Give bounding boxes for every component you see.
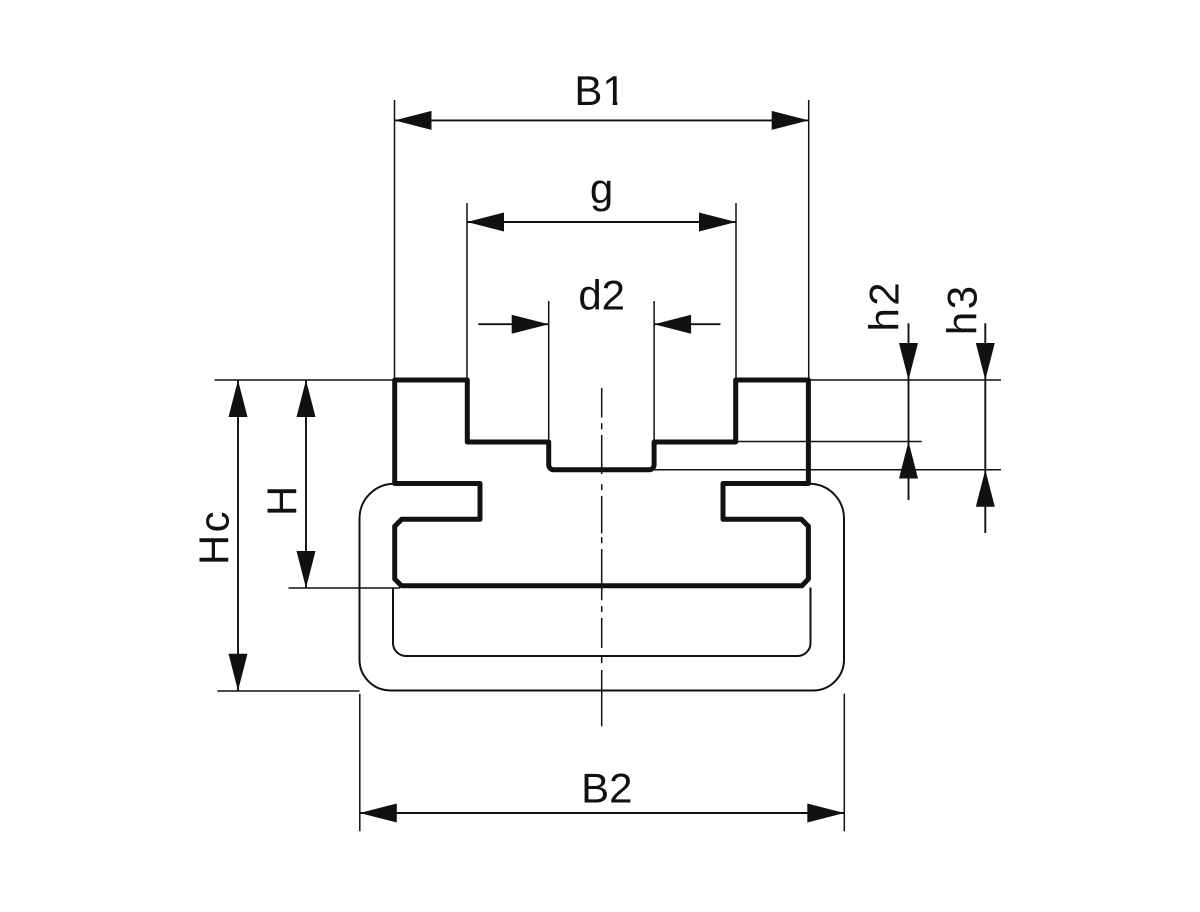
h3 upper arrow	[976, 343, 995, 380]
Hc top arrow	[229, 380, 248, 417]
B2 dimension line	[360, 812, 845, 814]
B1 left extension	[394, 100, 396, 380]
g right arrow	[699, 213, 736, 232]
d2 right arrow	[654, 315, 691, 334]
H dimension line	[305, 380, 307, 588]
Hc dimension line	[237, 380, 239, 691]
Hc bottom arrow	[229, 654, 248, 691]
extension lines	[215, 100, 1001, 831]
C-channel inner thin outline	[393, 588, 811, 657]
h2 upper arrow	[899, 343, 918, 380]
svg-text:h2: h2	[860, 280, 907, 332]
svg-text:H: H	[258, 486, 305, 516]
H bottom extension	[289, 587, 401, 589]
groove bottom extension right	[654, 469, 1001, 471]
d2 left extension	[548, 301, 550, 442]
svg-text:d2: d2	[578, 272, 625, 319]
g left arrow	[467, 213, 504, 232]
mid surface extension right	[736, 441, 922, 443]
B2 right arrow	[807, 804, 844, 823]
top surface extension right	[808, 379, 1001, 381]
h3 dimension line	[984, 323, 986, 533]
B1 right extension	[808, 100, 810, 380]
g dimension line	[467, 221, 736, 223]
svg-text:B2: B2	[581, 765, 632, 812]
B1 left arrow	[395, 111, 432, 130]
B2 left arrow	[360, 804, 397, 823]
svg-text:h3: h3	[938, 283, 985, 335]
svg-text:g: g	[590, 165, 613, 212]
Hc bottom extension	[217, 690, 359, 692]
C-channel outer thin outline	[360, 484, 845, 691]
svg-text:B1: B1	[574, 67, 625, 114]
H bottom arrow	[297, 551, 316, 588]
h2 lower arrow	[899, 442, 918, 479]
g left extension	[466, 203, 468, 380]
center line	[601, 388, 603, 726]
B1 right arrow	[772, 111, 809, 130]
arrowheads	[229, 111, 995, 823]
B2 left extension	[359, 694, 361, 832]
profile chain-guide thick outline	[395, 380, 809, 586]
d2 left arrow	[512, 315, 549, 334]
H top arrow	[297, 380, 316, 417]
d2 right leader	[654, 323, 720, 325]
h3 lower arrow	[976, 470, 995, 507]
d2 left leader	[478, 323, 548, 325]
B2 right extension	[843, 694, 845, 832]
dimension lines	[238, 120, 985, 813]
d2 right extension	[653, 301, 655, 442]
g right extension	[735, 203, 737, 380]
top surface extension left	[215, 379, 395, 381]
svg-text:Hc: Hc	[191, 509, 238, 565]
h2 dimension line	[908, 323, 910, 500]
B1 dimension line	[395, 119, 809, 121]
